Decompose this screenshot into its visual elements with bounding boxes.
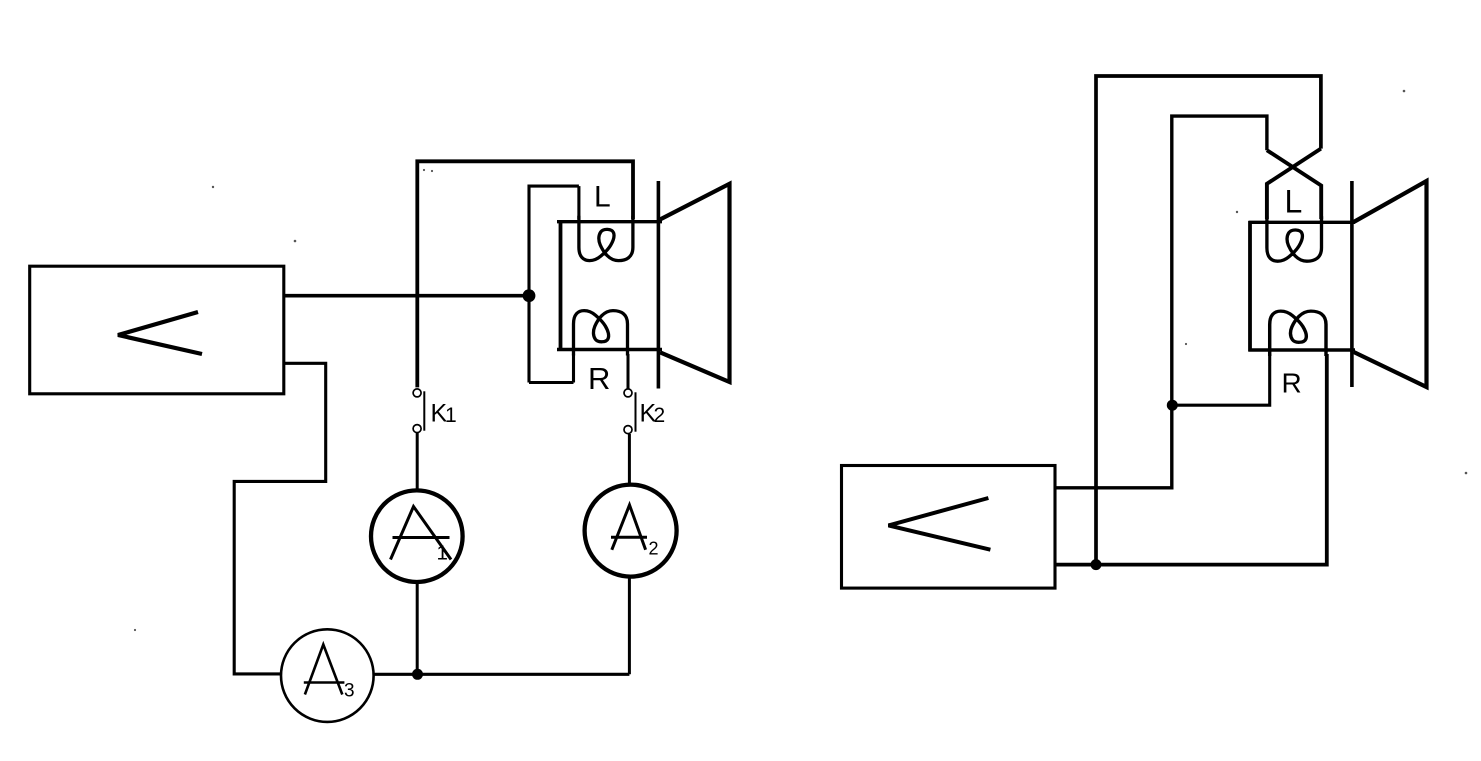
- speaker frame bottom edge (right): [1249, 348, 1356, 352]
- speaker frame top edge (right): [1249, 221, 1356, 224]
- wire R lamp right terminal down to switch K2: [627, 354, 630, 389]
- switch K2 lever: [635, 392, 637, 431]
- source symbol chevron (right): [889, 498, 991, 550]
- speaker frame bottom edge (left): [557, 348, 662, 352]
- speaker frame left edge (right): [1248, 221, 1252, 352]
- wire R lamp left terminal stub down to bracket: [572, 354, 575, 383]
- wire bracket to lamp terminals (common feed): [529, 186, 579, 382]
- ammeter A2 circle: [585, 485, 677, 577]
- switch K2 contact circles: [624, 389, 632, 397]
- wire crossover diagonal (upper-left to lower-right): [1267, 150, 1321, 219]
- wire crossover diagonal (upper-right to lower-left): [1267, 149, 1321, 219]
- node D junction dot (riser tap): [1167, 400, 1178, 411]
- ammeter A1 circle: [371, 490, 463, 582]
- svg-text:2: 2: [654, 404, 666, 427]
- speaker horn (left): [660, 184, 730, 382]
- wire source upper output to vertical riser: [1055, 116, 1267, 488]
- wire source upper output to node A: [284, 294, 529, 298]
- wire top loop from K1 branch to L lamp right terminal: [417, 161, 633, 387]
- svg-text:R: R: [588, 361, 610, 396]
- svg-text:1: 1: [437, 542, 448, 565]
- wire K1 to ammeter A1: [416, 433, 419, 491]
- wire L lamp left terminal stub: [577, 186, 580, 219]
- node C junction dot (bottom run): [1091, 559, 1102, 570]
- lamp R (right speaker, coil): [1270, 311, 1326, 356]
- speaker frame top edge (left): [557, 220, 662, 223]
- speaker horn (right): [1354, 181, 1427, 387]
- wire A1 to bottom bus: [416, 582, 419, 674]
- lamp R (left speaker, coil): [574, 311, 628, 356]
- signal source box (left): [30, 266, 284, 394]
- switch K1 lever: [423, 391, 425, 430]
- lamp L (right speaker, coil): [1267, 216, 1322, 261]
- node A junction dot: [523, 289, 536, 302]
- svg-text:R: R: [1282, 367, 1302, 398]
- svg-text:L: L: [1285, 184, 1303, 220]
- switch K1 contact circles: [413, 389, 421, 397]
- node B junction dot (bottom bus): [412, 669, 423, 680]
- speaker diaphragm bar (left): [657, 181, 661, 389]
- bottom bus wire A3 to A2: [374, 673, 630, 676]
- speaker diaphragm bar (right): [1350, 181, 1354, 387]
- scan specks (noise): [134, 90, 1467, 631]
- wire source lower output bottom run: [1055, 354, 1327, 565]
- signal source box (right): [842, 466, 1056, 589]
- wire node D to R lamp left terminal: [1172, 354, 1269, 405]
- wire A2 to bottom bus: [628, 576, 631, 674]
- wire source lower output to A3: [234, 363, 326, 674]
- ammeter A3 circle: [281, 629, 374, 722]
- source symbol chevron (left): [118, 312, 202, 354]
- wire node C up and over to crossover: [1096, 76, 1321, 565]
- speaker frame left edge (left): [559, 220, 563, 351]
- wire bracket bottom to R lamp left terminal: [529, 381, 574, 384]
- wire K2 to ammeter A2: [628, 434, 631, 485]
- svg-text:1: 1: [445, 404, 457, 427]
- svg-text:L: L: [594, 181, 611, 214]
- ammeter A3 letter A: [304, 645, 345, 695]
- svg-text:3: 3: [344, 681, 355, 702]
- ammeter A2 letter A: [611, 505, 647, 550]
- svg-text:2: 2: [649, 539, 659, 559]
- lamp L (left speaker, coil): [579, 216, 633, 261]
- ammeter A1 letter A: [391, 507, 452, 560]
